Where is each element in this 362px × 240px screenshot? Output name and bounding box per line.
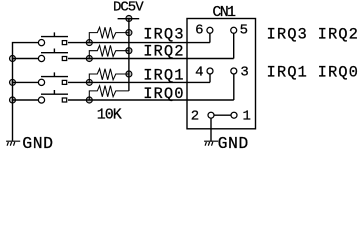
svg-text:10K: 10K [97, 106, 122, 123]
svg-text:1: 1 [243, 108, 251, 124]
svg-text:IRQ3: IRQ3 [267, 25, 308, 43]
svg-text:CN1: CN1 [212, 4, 236, 21]
svg-text:IRQ1: IRQ1 [143, 66, 184, 84]
svg-text:IRQ0: IRQ0 [318, 63, 359, 81]
svg-text:IRQ2: IRQ2 [143, 43, 184, 61]
svg-text:2: 2 [191, 108, 199, 124]
svg-text:3: 3 [240, 64, 248, 80]
svg-text:6: 6 [195, 23, 203, 39]
svg-text:IRQ2: IRQ2 [318, 25, 359, 43]
svg-text:5: 5 [240, 23, 248, 39]
svg-text:IRQ0: IRQ0 [143, 85, 184, 103]
svg-text:4: 4 [195, 64, 203, 80]
svg-text:GND: GND [218, 134, 249, 153]
svg-text:IRQ1: IRQ1 [267, 63, 308, 81]
svg-text:DC5V: DC5V [113, 0, 144, 16]
svg-text:GND: GND [22, 134, 53, 153]
svg-text:IRQ3: IRQ3 [143, 26, 184, 44]
